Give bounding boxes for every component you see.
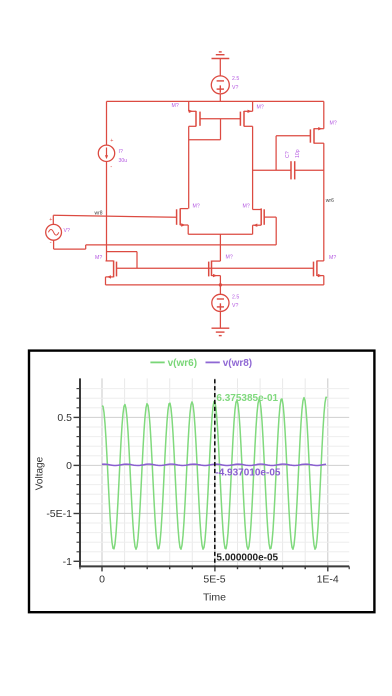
wire tail down to M7 — [219, 234, 221, 261]
label V1 value 2.5 — [232, 76, 239, 82]
label M2 name M? — [243, 204, 250, 210]
wire VSS rail — [106, 284, 324, 286]
x axis title Time — [203, 592, 226, 604]
x axis tick labels — [99, 574, 339, 586]
svg-text:v(wr8): v(wr8) — [223, 358, 252, 369]
svg-text:-1: -1 — [63, 556, 72, 568]
svg-text:M?: M? — [329, 255, 336, 261]
transistor M6 NMOS mirror input — [106, 261, 117, 285]
cursor time label — [216, 553, 278, 564]
svg-text:V?: V? — [64, 228, 70, 234]
wire net to M2 gate branch — [86, 244, 277, 246]
svg-text:+: + — [49, 217, 52, 223]
wire M2 gate right — [264, 216, 276, 218]
wire net wr8 to M1 gate — [53, 215, 176, 217]
wire M5 gate down to node — [275, 136, 277, 170]
svg-text:30u: 30u — [119, 158, 128, 164]
label V2 value 2.5 — [232, 295, 239, 301]
svg-text:M?: M? — [330, 121, 337, 127]
purple waveform v(wr8) — [102, 464, 326, 465]
wire mirror gate rail — [117, 267, 314, 269]
wire V2 to ground — [219, 312, 221, 329]
label net wr8 — [95, 211, 103, 217]
wire M4 drain to M2 drain — [252, 126, 254, 209]
svg-text:v(wr6): v(wr6) — [168, 358, 197, 369]
label V3 plus — [49, 217, 52, 223]
cursor dashed line at 5E-5 — [214, 379, 216, 566]
y axis — [74, 378, 81, 566]
wire VDD rail left drop to I1 — [106, 101, 108, 145]
wire V1 to VDD rail — [219, 94, 221, 102]
svg-text:C?: C? — [285, 151, 291, 158]
label V1 name V? — [232, 85, 238, 91]
cursor value label green — [216, 393, 278, 404]
label V3 name V? — [64, 228, 70, 234]
label M7 name M? — [226, 255, 233, 261]
svg-text:M?: M? — [257, 105, 264, 111]
wire M6 diode loop top — [107, 251, 138, 253]
svg-text:M?: M? — [193, 204, 200, 210]
current source I1 30u — [98, 145, 114, 161]
wire M2 gate drop — [275, 217, 277, 245]
wire M3 diode loop horizontal — [189, 139, 221, 141]
wire M5 drain down output — [323, 143, 325, 261]
legend series v(wr6) — [150, 358, 197, 369]
svg-text:M?: M? — [226, 255, 233, 261]
label M3 name M? — [172, 103, 179, 109]
legend series v(wr8) — [206, 358, 253, 369]
wire M3 gate to M4 gate — [200, 118, 240, 120]
wire VDD rail right drop — [323, 101, 325, 128]
transistor M3 PMOS mirror left — [189, 101, 200, 126]
svg-text:0.5: 0.5 — [57, 412, 72, 424]
voltage source V3 AC input — [46, 224, 62, 240]
svg-text:1E-4: 1E-4 — [317, 574, 339, 586]
label V2 name V? — [232, 303, 238, 309]
wire M3 drain to M1 drain — [188, 126, 190, 208]
svg-text:5.000000e-05: 5.000000e-05 — [216, 553, 278, 564]
voltage source V2 2.5 (bottom) — [212, 294, 229, 311]
wire V1 to ground — [219, 59, 221, 77]
green waveform v(wr6) — [102, 397, 327, 549]
label C1 name C? — [285, 151, 291, 158]
svg-text:2.5: 2.5 — [232, 76, 239, 82]
chart panel box — [29, 351, 374, 613]
svg-text:V?: V? — [232, 85, 238, 91]
wire step up — [85, 245, 87, 249]
wire VDD rail — [107, 100, 324, 102]
svg-text:10p: 10p — [295, 149, 301, 158]
wire diff source rail — [188, 233, 252, 235]
transistor M4 PMOS mirror right — [240, 101, 252, 126]
label M6 name M? — [95, 255, 102, 261]
svg-text:M?: M? — [243, 204, 250, 210]
transistor M5 PMOS output — [310, 127, 323, 144]
wire I1 to M6 drain — [106, 162, 108, 261]
capacitor C1 10p — [291, 161, 295, 179]
svg-text:-5E-1: -5E-1 — [46, 508, 72, 520]
svg-text:I?: I? — [119, 149, 123, 155]
svg-text:0: 0 — [66, 460, 72, 472]
ground GND2 (bottom) — [212, 328, 230, 335]
label M8 name M? — [329, 255, 336, 261]
label M5 name M? — [330, 121, 337, 127]
svg-text:-: - — [50, 240, 52, 246]
transistor M8 NMOS output — [314, 261, 324, 285]
wire V3 plus up — [52, 215, 54, 224]
wire M3 diode loop vertical — [220, 119, 222, 140]
wire V2 to VSS rail — [219, 285, 221, 294]
label I1 name I? — [119, 149, 123, 155]
label M4 name M? — [257, 105, 264, 111]
x axis — [79, 566, 349, 571]
svg-text:V?: V? — [232, 303, 238, 309]
svg-text:6.375385e-01: 6.375385e-01 — [216, 393, 278, 404]
label net wr6 — [326, 198, 334, 204]
transistor M2 NMOS diff right — [253, 208, 265, 234]
plot gridlines — [80, 378, 349, 566]
label I1 value 30u — [119, 158, 128, 164]
label C1 value 10p — [295, 149, 301, 158]
wire C1 to output node — [295, 169, 324, 171]
svg-text:-4.937010e-05: -4.937010e-05 — [215, 467, 280, 478]
label M1 name M? — [193, 204, 200, 210]
y axis title Voltage — [35, 456, 46, 490]
node VSS junction — [219, 283, 222, 286]
label V3 minus — [50, 240, 52, 246]
voltage source V1 2.5 (top) — [211, 76, 229, 94]
svg-text:wr8: wr8 — [95, 211, 103, 217]
svg-text:M?: M? — [172, 103, 179, 109]
wire V3 minus down — [53, 240, 55, 249]
transistor M7 NMOS tail — [209, 261, 221, 285]
svg-text:2.5: 2.5 — [232, 295, 239, 301]
label I1 plus — [110, 138, 113, 144]
y axis tick labels — [46, 412, 72, 568]
svg-text:M?: M? — [95, 255, 102, 261]
svg-text:Time: Time — [203, 592, 226, 604]
wire V3 bottom to step — [54, 248, 86, 250]
svg-text:5E-5: 5E-5 — [203, 574, 225, 586]
transistor M1 NMOS diff left — [177, 208, 189, 234]
svg-text:-: - — [110, 164, 112, 170]
cursor value label purple — [215, 467, 280, 478]
svg-text:wr6: wr6 — [326, 198, 334, 204]
svg-text:0: 0 — [99, 574, 105, 586]
label I1 minus — [110, 164, 112, 170]
wire M5 gate left — [276, 135, 310, 137]
wire M6 diode loop drop — [136, 252, 138, 269]
wire stage1 node to C1 — [253, 169, 291, 171]
ground GND1 (top) — [212, 52, 230, 59]
svg-text:Voltage: Voltage — [35, 456, 46, 490]
svg-text:+: + — [110, 138, 113, 144]
